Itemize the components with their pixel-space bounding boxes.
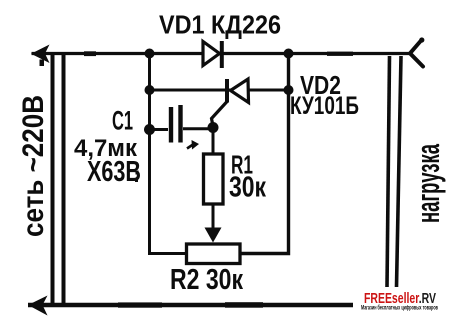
wire: left vertical pair (mains side) 2 xyxy=(62,55,66,303)
capacitor C1 xyxy=(150,105,214,143)
svg-text:30к: 30к xyxy=(229,172,266,204)
terminal fork: load top-right xyxy=(410,40,423,67)
svg-text:нагрузка: нагрузка xyxy=(410,144,446,223)
node: top-right junction xyxy=(284,49,294,59)
terminal arrow: mains bottom-left xyxy=(28,296,48,316)
svg-text:Магазин бесплатных цифровых то: Магазин бесплатных цифровых товаров xyxy=(361,304,438,312)
C1 polarity mark xyxy=(187,140,199,150)
wire: bottom rail rough blob 2 xyxy=(225,302,263,308)
wire: bottom rail rough blob 1 xyxy=(118,302,162,307)
wire: VD2 horizontal branch xyxy=(150,89,289,92)
node: VD2 cathode junction xyxy=(145,85,155,95)
wiper arrow of R2 xyxy=(205,228,222,243)
node: top-left junction xyxy=(145,49,155,59)
svg-text:VD1 КД226: VD1 КД226 xyxy=(159,10,281,40)
speck near left rail xyxy=(40,60,45,67)
wire: right vertical pair (load side) 1 xyxy=(387,56,390,287)
node: gate/C1/R1 junction xyxy=(208,122,219,133)
svg-text:R2 30к: R2 30к xyxy=(170,264,243,296)
node: C1 left junction xyxy=(144,124,155,135)
node: VD2 anode junction xyxy=(284,85,294,95)
svg-text:сеть ~220В: сеть ~220В xyxy=(17,95,50,237)
thyristor VD2 xyxy=(227,79,249,103)
wire: bottom mains rail xyxy=(28,303,353,307)
wire: left vertical pair (mains side) 1 xyxy=(51,55,55,303)
speck left of inner rail xyxy=(136,171,139,175)
svg-text:КУ101Б: КУ101Б xyxy=(290,92,359,120)
wire: VD2 gate xyxy=(212,101,228,126)
wire: inner right rail down to R2 right lead xyxy=(240,54,289,254)
svg-text:Х63В: Х63В xyxy=(87,156,141,188)
svg-text:C1: C1 xyxy=(112,106,133,136)
wire: top rail rough blob xyxy=(84,51,96,56)
potentiometer R2 xyxy=(187,244,241,264)
wire: top mains rail xyxy=(32,52,411,55)
wire: top rail rough blob 2 xyxy=(327,52,353,56)
wire: inner left rail down to R2 left lead xyxy=(150,54,187,254)
resistor R1 xyxy=(204,128,224,230)
terminal arrow: mains top-left xyxy=(31,45,50,64)
diode VD1 xyxy=(203,41,222,68)
wire: right vertical pair (load side) 2 xyxy=(397,56,402,287)
